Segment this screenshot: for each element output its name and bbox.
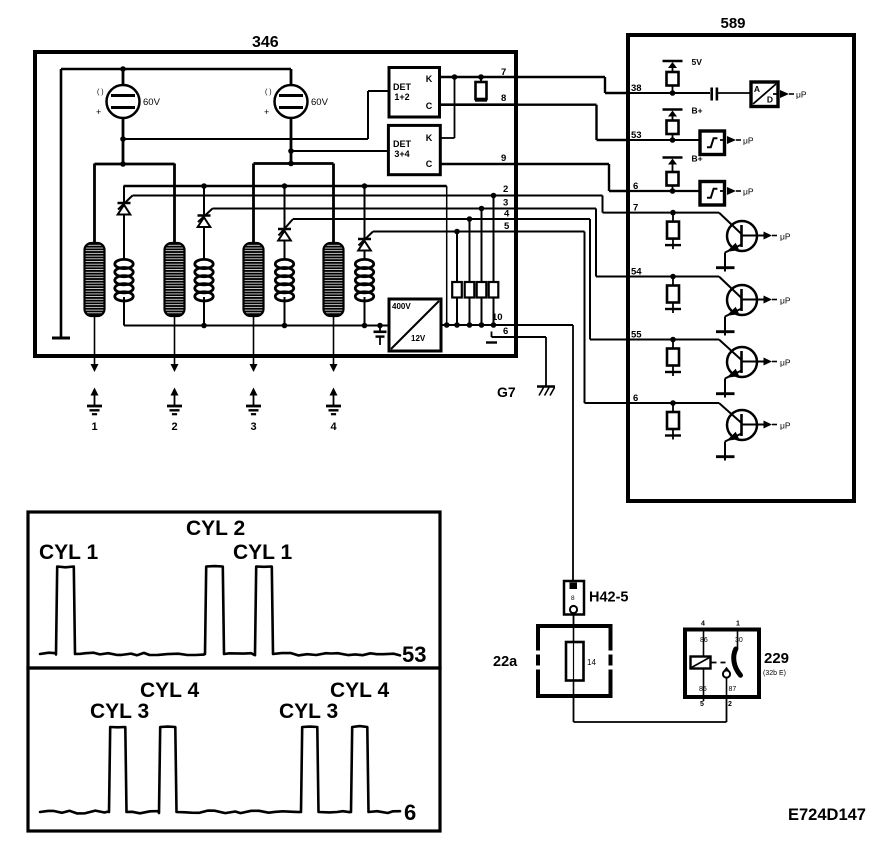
svg-text:( ): ( )	[97, 89, 104, 96]
svg-text:7: 7	[501, 67, 506, 78]
svg-text:8: 8	[501, 93, 506, 104]
svg-text:DET: DET	[393, 82, 412, 92]
svg-text:CYL 4: CYL 4	[140, 679, 199, 702]
svg-text:1: 1	[92, 421, 98, 433]
svg-text:2: 2	[503, 184, 508, 195]
svg-text:E724D147: E724D147	[788, 806, 866, 824]
svg-text:53: 53	[402, 642, 426, 667]
svg-text:K: K	[426, 74, 433, 84]
svg-text:60V: 60V	[143, 97, 161, 108]
svg-text:22a: 22a	[493, 654, 518, 670]
svg-text:K: K	[426, 133, 433, 143]
svg-text:CYL 1: CYL 1	[39, 541, 98, 564]
svg-text:5V: 5V	[692, 57, 703, 67]
svg-text:10: 10	[492, 312, 503, 323]
svg-text:5: 5	[504, 221, 510, 232]
svg-text:85: 85	[699, 686, 707, 693]
svg-text:229: 229	[764, 650, 789, 667]
svg-text:μP: μP	[780, 232, 791, 242]
svg-text:CYL 1: CYL 1	[233, 541, 292, 564]
svg-text:(32b E): (32b E)	[763, 670, 786, 677]
svg-text:589: 589	[720, 15, 745, 32]
svg-text:3: 3	[503, 198, 508, 209]
svg-text:( ): ( )	[265, 89, 272, 96]
svg-text:C: C	[426, 159, 433, 169]
svg-text:μP: μP	[796, 90, 807, 100]
svg-text:μP: μP	[780, 358, 791, 368]
svg-text:4: 4	[504, 209, 510, 220]
svg-text:1: 1	[736, 621, 740, 628]
svg-text:+: +	[96, 107, 101, 117]
svg-text:μP: μP	[743, 187, 754, 197]
svg-text:CYL 3: CYL 3	[90, 700, 149, 723]
svg-text:2: 2	[172, 421, 178, 433]
svg-text:3+4: 3+4	[394, 149, 409, 159]
svg-text:400V: 400V	[392, 302, 411, 311]
svg-text:60V: 60V	[311, 97, 329, 108]
svg-text:CYL 4: CYL 4	[330, 679, 389, 702]
svg-text:DET: DET	[393, 139, 412, 149]
svg-text:μP: μP	[780, 296, 791, 306]
svg-text:μP: μP	[780, 421, 791, 431]
svg-text:30: 30	[735, 637, 743, 644]
svg-text:CYL 3: CYL 3	[279, 700, 338, 723]
svg-text:346: 346	[252, 34, 279, 51]
svg-text:87: 87	[729, 686, 737, 693]
svg-text:6: 6	[404, 800, 416, 825]
svg-text:A: A	[754, 84, 760, 94]
svg-text:1+2: 1+2	[394, 92, 409, 102]
svg-text:CYL 2: CYL 2	[186, 517, 245, 540]
svg-text:38: 38	[631, 83, 642, 94]
svg-text:C: C	[426, 101, 433, 111]
svg-text:D: D	[767, 95, 773, 105]
svg-text:12V: 12V	[411, 334, 426, 343]
svg-text:3: 3	[251, 421, 257, 433]
svg-text:B+: B+	[692, 106, 703, 116]
svg-text:86: 86	[700, 637, 708, 644]
svg-text:53: 53	[631, 130, 642, 141]
svg-text:5: 5	[700, 701, 704, 708]
svg-text:+: +	[264, 107, 269, 117]
svg-text:B+: B+	[692, 154, 703, 164]
svg-text:8: 8	[571, 595, 575, 602]
svg-text:4: 4	[331, 421, 338, 433]
svg-text:6: 6	[503, 326, 508, 337]
svg-text:G7: G7	[497, 384, 516, 400]
svg-text:4: 4	[701, 621, 705, 628]
svg-text:9: 9	[501, 153, 506, 164]
svg-text:2: 2	[728, 701, 732, 708]
svg-text:6: 6	[633, 181, 638, 192]
svg-text:H42-5: H42-5	[589, 590, 629, 606]
svg-text:μP: μP	[743, 136, 754, 146]
svg-text:14: 14	[587, 658, 596, 667]
